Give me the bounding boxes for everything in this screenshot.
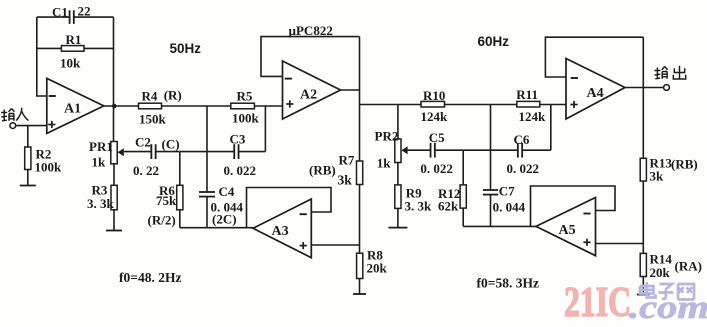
op-amp A4: [566, 59, 625, 120]
wire A4 output vertical to R13: [642, 37, 644, 158]
svg-text:1k: 1k: [92, 155, 107, 170]
wire C3 riser up: [264, 106, 266, 152]
wire R2 riser: [27, 126, 29, 147]
svg-text:R5: R5: [237, 88, 253, 103]
wire A2 output: [341, 89, 360, 91]
svg-text:20k: 20k: [650, 265, 671, 280]
wire A5 + to R13/R14 junction: [596, 243, 644, 245]
svg-text:A2: A2: [300, 87, 317, 102]
wire R13 to R14: [642, 181, 644, 253]
capacitor C4: [199, 184, 244, 228]
wire R14 to ground: [642, 277, 644, 295]
output terminal 输出: [664, 85, 670, 91]
svg-text:3. 3k: 3. 3k: [87, 196, 115, 211]
svg-text:C2: C2: [135, 134, 151, 149]
svg-text:R10: R10: [423, 88, 445, 103]
wire R9 to ground: [397, 208, 399, 227]
svg-text:PR1: PR1: [89, 139, 113, 154]
wire R4 to R5: [162, 105, 231, 107]
svg-text:R1: R1: [66, 32, 82, 47]
svg-text:124k: 124k: [519, 109, 547, 124]
wire A2 minus feedback: [261, 37, 360, 77]
svg-text:150k: 150k: [139, 112, 167, 127]
svg-text:A4: A4: [587, 86, 604, 101]
svg-text:A1: A1: [64, 101, 81, 116]
svg-text:(C): (C): [162, 137, 180, 152]
wire A4 output: [625, 87, 664, 89]
svg-text:R11: R11: [516, 87, 538, 102]
svg-text:3k: 3k: [338, 172, 353, 187]
svg-text:µPC822: µPC822: [289, 23, 333, 38]
svg-text:75k: 75k: [156, 193, 177, 208]
svg-text:C1: C1: [52, 5, 68, 20]
input terminal 输入: [10, 123, 16, 129]
ground (R2): [20, 185, 36, 187]
ground (R14): [637, 294, 650, 296]
svg-text:(RB): (RB): [309, 162, 336, 177]
wire A4 minus feedback: [545, 37, 643, 77]
svg-text:60Hz: 60Hz: [478, 34, 510, 49]
resistor R7: [338, 152, 363, 187]
op-amp A5: [536, 198, 596, 256]
svg-text:C7: C7: [499, 183, 515, 198]
wire R2 to ground: [27, 170, 29, 186]
wire A3 feedback loop: [247, 188, 332, 228]
resistor R9: [395, 185, 432, 213]
op-amp A1: [47, 78, 104, 133]
wire bottom rail to A5 output: [463, 225, 536, 227]
capacitor C6: [507, 132, 551, 176]
op-amp A3: [253, 199, 311, 258]
resistor R6: [156, 152, 183, 228]
svg-text:1k: 1k: [377, 155, 392, 170]
svg-text:A5: A5: [559, 223, 576, 238]
svg-text:62k: 62k: [438, 198, 459, 213]
svg-text:124k: 124k: [421, 109, 449, 124]
svg-text:0. 044: 0. 044: [493, 199, 526, 214]
resistor R4: [139, 88, 167, 126]
capacitor C2: [124, 134, 180, 178]
wire main vertical A2 out down to R7: [359, 37, 361, 161]
wire input to A1 +: [16, 125, 47, 127]
wire R10 to R11: [445, 104, 517, 106]
wire bottom rail to A3 output: [180, 227, 253, 229]
svg-text:20k: 20k: [367, 260, 388, 275]
svg-text:10k: 10k: [60, 56, 81, 71]
wire R7 to R8: [359, 185, 361, 254]
watermark 电子网: [640, 282, 694, 300]
capacitor C7: [483, 105, 526, 227]
op-amp A2: [283, 61, 341, 119]
wire PR2 riser: [397, 105, 399, 140]
wire R3 to ground: [113, 210, 115, 231]
svg-text:100k: 100k: [232, 110, 260, 125]
svg-text:f0=58. 3Hz: f0=58. 3Hz: [477, 276, 539, 291]
wire C2 to C3: [180, 151, 234, 153]
svg-text:50Hz: 50Hz: [170, 41, 202, 56]
node A1 output junction: [112, 104, 117, 109]
resistor R14: [640, 251, 672, 280]
svg-text:3k: 3k: [650, 168, 665, 183]
wire A1 minus feedback vertical: [37, 17, 47, 96]
wire main rail right: [360, 104, 422, 106]
capacitor C1: [37, 4, 114, 24]
resistor R1: [37, 32, 114, 71]
wire R11 to A4 +: [540, 104, 566, 106]
wire A5 feedback loop: [531, 186, 616, 226]
resistor R10: [421, 88, 449, 124]
wire R8 to ground: [359, 279, 361, 295]
svg-text:.com: .com: [629, 290, 707, 326]
svg-text:C4: C4: [219, 184, 235, 199]
svg-text:f0=48. 2Hz: f0=48. 2Hz: [119, 270, 181, 285]
svg-text:0. 22: 0. 22: [133, 163, 159, 178]
svg-text:100k: 100k: [35, 160, 63, 175]
capacitor C3: [224, 131, 266, 178]
svg-text:C5: C5: [429, 130, 445, 145]
svg-text:0. 022: 0. 022: [420, 161, 453, 176]
resistor R3: [87, 183, 117, 211]
svg-text:PR2: PR2: [375, 128, 399, 143]
wire feedback right vertical to output node: [113, 17, 115, 106]
svg-text:(RA): (RA): [675, 258, 702, 273]
potentiometer PR2: [375, 128, 408, 170]
svg-text:(RB): (RB): [671, 156, 698, 171]
wire R5 to A2 +: [254, 105, 282, 107]
svg-text:(R): (R): [164, 88, 182, 103]
resistor R5: [231, 88, 260, 125]
wire PR1 to R3: [113, 164, 115, 186]
ground (R8): [353, 293, 366, 295]
svg-text:0. 022: 0. 022: [224, 163, 257, 178]
label 输入: [1, 108, 28, 121]
svg-text:C6: C6: [514, 132, 530, 147]
svg-text:3. 3k: 3. 3k: [405, 198, 433, 213]
wire C6 riser up: [550, 105, 552, 151]
resistor R12: [438, 150, 466, 226]
svg-text:(2C): (2C): [212, 211, 237, 226]
svg-text:R4: R4: [142, 88, 158, 103]
svg-text:A3: A3: [272, 224, 289, 239]
wire center vertical (main to C4): [206, 106, 208, 192]
svg-text:(R/2): (R/2): [148, 212, 176, 227]
svg-text:R7: R7: [339, 152, 355, 167]
ground (R3): [106, 230, 122, 232]
capacitor C5: [407, 130, 463, 176]
resistor R2: [25, 147, 62, 175]
svg-text:0. 022: 0. 022: [507, 161, 540, 176]
wire C5 to C6: [463, 149, 518, 151]
ground (R9): [388, 227, 407, 229]
resistor R8: [357, 247, 388, 278]
svg-text:C3: C3: [230, 131, 246, 146]
svg-text:21IC: 21IC: [564, 280, 631, 326]
svg-text:22: 22: [78, 4, 91, 19]
resistor R13: [640, 155, 672, 183]
potentiometer PR1: [89, 106, 124, 170]
resistor R11: [516, 87, 546, 124]
wire A1 output: [104, 105, 139, 107]
label 输出: [654, 66, 685, 79]
wire PR2 to R9: [397, 163, 399, 185]
wire A3 + to R7/R8 junction: [311, 244, 359, 246]
